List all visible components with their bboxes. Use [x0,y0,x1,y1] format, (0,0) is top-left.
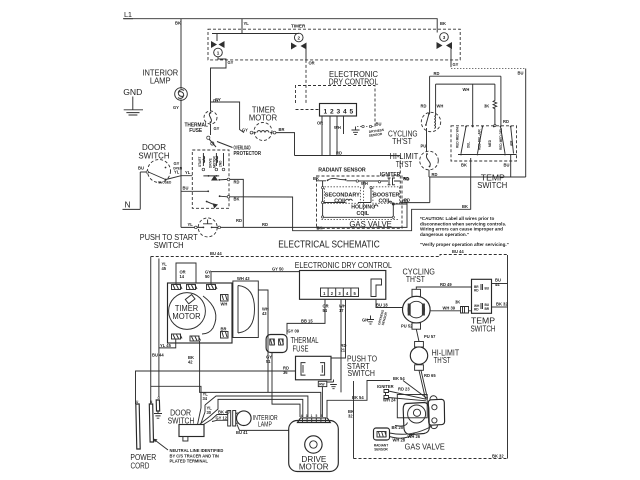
svg-text:GAS VALVE: GAS VALVE [349,219,392,229]
svg-text:BU 41: BU 41 [236,430,248,435]
svg-text:FUSE: FUSE [293,343,309,353]
svg-text:BU 44: BU 44 [210,251,222,256]
svg-text:BU: BU [485,287,490,291]
igniter (top) [378,172,409,185]
timer cam switch 2 [291,33,307,49]
svg-text:RD: RD [262,222,268,227]
TOP SCHEMATIC [123,10,526,251]
resistor 3K (top) [484,84,497,127]
svg-text:BK: BK [234,197,240,202]
svg-text:BR: BR [279,127,285,132]
svg-text:PLATED TERMINAL: PLATED TERMINAL [170,459,209,464]
svg-text:BU: BU [138,166,144,171]
motor block frame [421,84,495,116]
svg-text:BB 15: BB 15 [301,318,313,323]
svg-text:BK: BK [462,204,468,209]
gas valve box (top) [317,176,403,229]
hi-limit label (top) [390,152,419,169]
cycling thermostat (top) [421,112,440,131]
radiant sensor (bottom) [374,428,390,451]
svg-text:2: 2 [297,36,300,41]
timer assembly box [168,283,233,343]
node GND [123,87,142,97]
svg-text:PROTECTOR: PROTECTOR [234,151,262,157]
power cord plug [136,396,161,449]
wire YL 34 [151,386,208,408]
wire right edge BK 32 [354,255,508,459]
svg-text:SENSOR: SENSOR [374,447,388,451]
svg-text:BK 54: BK 54 [393,376,405,381]
svg-text:GN: GN [362,318,368,323]
temp switch label (top) [477,173,507,190]
svg-text:54: 54 [323,308,328,313]
motor block WH line [463,84,473,126]
svg-text:51: 51 [266,359,271,364]
svg-text:1: 1 [217,51,220,56]
wire BK 32 temp [492,301,509,307]
svg-text:BU 44: BU 44 [452,249,464,254]
timer cam switch 3 [437,33,453,49]
wire fuse to overload [211,124,220,135]
svg-text:RD: RD [336,151,342,156]
svg-text:5: 5 [316,414,318,418]
wire cam2 to EDC (OR) [306,46,315,104]
wire WH 39 3K [430,300,471,314]
svg-text:BU 18: BU 18 [376,303,388,308]
gas valve assembly (bottom) [397,395,444,435]
wire left edge to power cord N [150,257,152,405]
dryness sensor label (bottom) [377,309,388,325]
wire OR 54 [287,300,329,335]
door switch (bottom) [168,408,212,441]
wire lamp BK 40 [212,409,231,419]
push to start label (bottom) [347,355,377,379]
wire L1 drop to lamp and door circuit [173,19,181,228]
svg-text:TH'ST: TH'ST [434,356,451,365]
svg-text:BK: BK [313,176,319,181]
wire PU 57 [416,329,436,341]
wire GY 50 [205,266,300,284]
svg-text:WH: WH [334,125,341,130]
wire RD 49 [416,282,471,290]
overload protector [207,136,216,147]
wire RW to motor [321,387,323,417]
svg-text:3: 3 [443,35,446,40]
svg-text:RD: RD [434,71,440,76]
svg-text:COIL: COIL [334,199,347,205]
svg-text:1: 1 [324,109,328,116]
svg-text:FUSE: FUSE [189,128,202,134]
svg-text:TH'ST: TH'ST [392,137,412,146]
svg-text:OPEN: OPEN [173,167,183,171]
temp switch (top) dashed box [451,126,517,161]
interior lamp (bottom) [228,411,251,427]
svg-text:OR: OR [317,121,323,126]
svg-text:LAMP: LAMP [258,422,272,429]
svg-text:RD: RD [236,218,242,223]
timer terminal T1 [172,285,183,290]
timer terminal T2 [187,285,198,290]
wire BK 32 vertical [348,381,354,459]
svg-text:GND: GND [123,87,142,97]
node N [123,172,141,210]
svg-text:BR: BR [485,307,490,311]
svg-text:BU: BU [183,186,189,191]
gas valve wire labels [390,423,433,443]
drive motor [289,414,339,472]
svg-text:dangerous operation.": dangerous operation." [420,232,469,237]
svg-text:PU: PU [421,144,427,149]
svg-text:SWITCH: SWITCH [168,417,195,426]
wire YL 45 [152,259,167,397]
temp switch label (bottom) [470,317,495,334]
svg-text:RED MED WH: RED MED WH [456,126,460,148]
radiant sensor (top) [313,167,379,217]
wire GY 51 [266,353,300,418]
motor start winding [198,153,205,171]
wire PU 52 [401,324,413,329]
svg-text:SWITCH: SWITCH [347,369,375,378]
svg-text:"Verify proper operation after: "Verify proper operation after servicing… [420,242,509,247]
wire door to bus 399 [210,399,303,417]
motor centrifugal contact BK [206,195,230,208]
svg-text:MOTOR: MOTOR [172,312,200,321]
svg-text:WH 43: WH 43 [237,276,250,281]
svg-text:GY: GY [453,62,459,67]
neutral line note [153,439,223,464]
svg-text:34: 34 [203,396,208,401]
svg-text:2: 2 [320,414,322,418]
wire YL drop [212,19,299,34]
svg-text:50: 50 [205,274,210,279]
wire RD 65 [419,370,436,399]
wire RD 21 [331,300,346,359]
svg-text:RD: RD [474,308,479,312]
svg-text:SWITCH: SWITCH [477,181,507,190]
wire lamp GY 12 [212,415,228,421]
svg-text:2: 2 [330,109,334,116]
timer terminal T5 [190,336,201,341]
svg-text:BK: BK [175,21,181,26]
svg-text:GY: GY [174,161,180,166]
wire YL door switch to motor [168,170,192,180]
wire PU cycling to hi-limit [421,128,427,152]
svg-text:1: 1 [311,414,313,418]
wire BU 44 temp [492,278,508,288]
ground symbol (power cord) [154,411,162,418]
timer box (dashed) [208,23,460,60]
dryness sensor (top) [352,125,385,137]
ground GN (bottom EDC) [362,316,374,325]
svg-text:GY: GY [215,97,221,102]
svg-text:YL: YL [185,170,191,175]
svg-text:BK 32: BK 32 [492,453,504,458]
svg-text:3: 3 [337,109,341,116]
svg-text:GY 50: GY 50 [272,266,284,271]
wire WH 43 right [258,290,269,392]
overload protector label [217,142,261,157]
svg-text:WH: WH [221,302,228,307]
thermal fuse (bottom) [266,329,300,353]
svg-text:CORD: CORD [130,460,149,470]
thermal fuse label (bottom) [290,335,318,353]
svg-text:RD 65: RD 65 [424,373,436,378]
svg-text:RADIANT SENSOR: RADIANT SENSOR [318,167,366,173]
EDC box (bottom) [300,271,386,300]
cycling label (bottom) [403,267,435,283]
wire RD 36 [136,366,296,405]
svg-text:RD: RD [503,119,509,124]
svg-text:RD: RD [432,172,438,177]
push to start switch (top) [181,218,221,237]
svg-text:SWITCH: SWITCH [154,241,184,250]
timer side switch box [233,276,258,338]
svg-text:disconnection when servicing c: disconnection when servicing controls. [420,221,506,226]
igniter (bottom) [377,381,427,403]
svg-text:BU: BU [376,122,382,127]
caution note [420,216,509,247]
svg-text:GY 12: GY 12 [216,415,228,420]
svg-text:IGNITER: IGNITER [380,172,401,178]
ground symbol (left) [124,97,143,116]
hi-limit thermostat (bottom) [410,342,427,371]
wire fuse to timer motor branch [211,97,249,133]
push to start label [140,233,198,250]
svg-text:GAS VALVE: GAS VALVE [405,441,445,451]
svg-text:2ND: 2ND [219,160,223,167]
motor switch block (top right) [430,71,509,126]
svg-text:MED: MED [488,139,492,147]
svg-text:GY: GY [242,128,248,133]
wire BK 54 [327,376,405,417]
svg-text:BR: BR [221,327,227,332]
svg-text:5: 5 [350,109,354,116]
svg-text:NEUTRAL LINE IDENTIFIED: NEUTRAL LINE IDENTIFIED [170,448,224,453]
timer motor disc [169,293,216,334]
wire BK from motor to gas valve bottom [230,158,471,231]
svg-text:30: 30 [207,410,212,415]
timer terminal T3 [207,285,218,290]
svg-text:DEL: DEL [467,142,471,148]
svg-text:GY: GY [214,126,220,131]
svg-text:17: 17 [339,308,344,313]
wire OR 14 [176,263,196,285]
svg-text:YL: YL [188,222,194,227]
svg-text:ELECTRONIC DRY CONTROL: ELECTRONIC DRY CONTROL [295,260,392,270]
wire BU 44 dashed rail [151,249,508,257]
svg-text:RD: RD [404,176,410,181]
node L1 [123,10,133,19]
EDC pin wires [317,116,381,156]
wire BU 41 [236,425,289,436]
secondary coil [325,187,361,205]
svg-text:COIL: COIL [357,211,370,217]
wire cam3 to BU rail (GY) [451,46,526,178]
svg-text:RD 23: RD 23 [398,387,410,392]
wire BU 18 [376,300,403,308]
motor assembly box (dashed, top) [192,150,229,208]
svg-text:RD: RD [402,198,408,203]
drive motor label [299,455,329,472]
svg-text:Wiring errors can cause improp: Wiring errors can cause improper and [420,227,503,232]
svg-text:*CAUTION: Label all wires prio: *CAUTION: Label all wires prior to [420,216,494,221]
gas valve coil bus (top) [322,181,324,218]
cycling thermostat (bottom) [403,289,431,329]
wire door to bus 396 [205,396,308,417]
EDC dashed outline (top) [296,86,376,127]
svg-text:DRY CONTROL: DRY CONTROL [329,76,379,86]
hi-limit label (bottom) [432,348,460,365]
svg-text:N: N [125,200,131,210]
svg-text:WH: WH [437,104,444,109]
svg-text:WH: WH [463,87,470,92]
svg-text:32: 32 [348,414,353,419]
svg-text:SWITCH: SWITCH [138,151,169,160]
timer BR contact [221,327,229,339]
svg-text:LAMP: LAMP [150,76,171,85]
svg-text:RD: RD [234,180,240,185]
svg-text:3K: 3K [455,300,460,305]
svg-text:BU: BU [518,71,524,76]
svg-text:36: 36 [283,370,288,375]
svg-text:RW: RW [319,383,324,387]
svg-text:21: 21 [341,348,346,353]
svg-text:GY: GY [173,105,179,110]
svg-text:3K: 3K [484,104,489,109]
svg-text:AIR: AIR [510,140,514,146]
svg-text:BK: BK [440,21,446,26]
wire BU stub [181,186,209,193]
timer WH contact [221,295,229,307]
svg-text:TH'ST: TH'ST [406,275,425,284]
svg-text:WH 39: WH 39 [443,306,456,311]
push to start switch box (bottom) [296,356,332,380]
thermal fuse F1 (top) [184,111,217,134]
motor 2nd winding [219,153,225,171]
booster coil [370,187,400,205]
wire RD bus to gas valve [221,203,408,227]
cycling label (top) [388,129,418,146]
svg-text:42: 42 [188,360,193,365]
svg-text:BK 32: BK 32 [496,301,508,306]
wire hi-limit down [400,170,525,203]
svg-text:BK: BK [461,163,467,168]
timer cam switch 1 [211,34,225,57]
svg-text:ELECTRICAL SCHEMATIC: ELECTRICAL SCHEMATIC [278,240,380,251]
svg-text:44: 44 [495,282,500,287]
svg-text:TH'ST: TH'ST [396,160,412,169]
svg-text:RD: RD [421,104,427,109]
motor centrifugal contact RD [218,178,230,181]
wire L1 top rail [124,19,446,33]
interior lamp label (bottom) [253,415,278,429]
svg-text:YL: YL [244,21,250,26]
wire timer motor to EDC bus (BR) [276,127,295,156]
svg-text:MOTOR: MOTOR [249,113,277,122]
motor internal bus [203,175,219,181]
timer motor TM (top) [249,106,277,141]
motor drive winding [209,153,218,171]
svg-text:MOTOR: MOTOR [299,463,329,472]
wire BK 42 [188,341,321,417]
svg-text:BU 44: BU 44 [152,353,164,358]
wire cam1 to thermal fuse (GY) [211,57,234,111]
BOTTOM DIAGRAM [130,249,508,472]
svg-text:4: 4 [343,109,347,116]
timer terminal T4 [172,334,183,339]
svg-text:YL 45: YL 45 [160,343,172,348]
temp switch contacts (top) [456,126,517,177]
electronic dry control label (top) [329,69,379,87]
wire YL 30 [205,405,212,415]
electronic dry control label (bottom) [295,260,392,270]
svg-text:3: 3 [306,414,308,418]
svg-text:RED-DEL-AIR: RED-DEL-AIR [477,129,481,150]
svg-text:45: 45 [162,266,167,271]
door switch label [138,143,169,160]
wire RD from motor down [230,179,244,227]
EDC connector 1 2 3 4 5 [320,104,357,117]
electrical schematic title [278,240,380,251]
gas valve label (bottom) [405,441,445,451]
lamp IL1 [175,87,188,101]
svg-text:14: 14 [180,274,185,279]
svg-text:PU 57: PU 57 [424,334,436,339]
svg-text:RED MED DEL: RED MED DEL [499,128,503,150]
svg-text:SWITCH: SWITCH [470,324,495,333]
svg-text:L1: L1 [124,10,132,19]
hi-limit thermostat (top) [420,151,439,170]
interior lamp label [142,69,178,86]
svg-text:BU: BU [504,163,510,168]
svg-text:HOLDING: HOLDING [351,204,375,210]
svg-text:OR: OR [309,61,315,66]
svg-text:GY: GY [228,60,234,65]
wire RD bus mid [295,151,409,203]
wire WH 17 [339,300,346,393]
temp switch box (bottom) [472,279,492,313]
svg-text:RD: RD [474,289,479,293]
svg-text:BY C/S TRACER AND TIN: BY C/S TRACER AND TIN [170,453,219,458]
wire YL 45 bottom jog [159,339,176,348]
svg-text:PU 52: PU 52 [401,324,413,329]
svg-text:TIMER: TIMER [291,23,306,28]
svg-text:GY 09: GY 09 [288,329,300,334]
svg-text:43: 43 [262,311,267,316]
svg-text:RD 49: RD 49 [440,282,452,287]
svg-text:CLOSED: CLOSED [158,181,172,185]
svg-text:MOTOR: MOTOR [213,155,217,168]
door switch (top) [138,160,183,185]
holding coil [322,198,408,219]
power cord label [130,452,156,471]
EDC bracket [371,279,382,297]
RW box and ground [318,380,337,389]
svg-text:IGNITER: IGNITER [377,384,394,389]
svg-text:START: START [198,157,202,167]
EDC connector strip [321,288,359,297]
